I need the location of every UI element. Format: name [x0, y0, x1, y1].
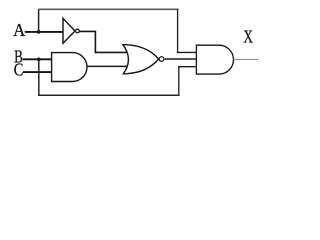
wire C input	[23, 71, 53, 73]
nor-gate NOR1 body	[123, 45, 159, 74]
wire AND2 top input stub	[177, 51, 198, 53]
wire X output	[234, 58, 258, 60]
wire inverter output elbow down to NOR top input	[80, 31, 129, 52]
wire NOR output to AND2 middle input	[165, 58, 198, 60]
nor-gate NOR1 output bubble	[159, 57, 164, 62]
svg-text:C: C	[14, 61, 24, 79]
wire top rail drop	[177, 9, 179, 53]
and-gate AND2 (3-input output gate)	[196, 45, 233, 74]
inverter U1 output bubble	[76, 29, 80, 33]
node A junction dot	[37, 30, 41, 34]
and-gate AND1 (inputs B,C)	[52, 53, 87, 82]
wire B input	[23, 58, 53, 60]
wire AND1 output to NOR bottom input	[86, 65, 129, 67]
inverter U1 triangle	[63, 18, 75, 43]
wire AND2 bottom input stub	[178, 66, 197, 68]
wire bottom rail horizontal	[38, 94, 180, 96]
wire A junction riser	[38, 9, 40, 32]
wire A input	[25, 31, 64, 33]
node B junction dot	[37, 57, 41, 61]
svg-text:X: X	[243, 28, 253, 47]
wire top rail horizontal	[38, 8, 178, 10]
wire B junction drop	[38, 59, 40, 96]
svg-text:A: A	[13, 21, 26, 40]
wire bottom rail riser	[178, 67, 180, 96]
